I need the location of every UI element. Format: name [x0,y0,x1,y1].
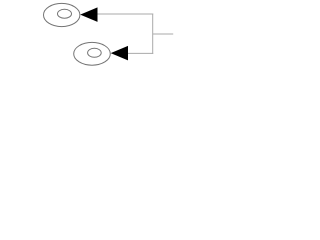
wire output stub (node OUT) [153,33,174,35]
indicator lamp L2 inner ellipse [88,48,102,57]
wire vertical bus [152,14,154,54]
arrowhead A1 (filled triangle pointing left into lamp L1) [80,7,97,22]
indicator lamp L1 (top receiver symbol, outer ellipse) [44,3,80,26]
background [0,0,225,70]
wire from A1 base to top-right corner [98,13,154,15]
wire from A2 base to bottom-right corner [128,52,153,54]
indicator lamp L1 inner ellipse [58,9,72,18]
arrowhead A2 (filled triangle pointing left into lamp L2) [111,46,128,61]
indicator lamp L2 (bottom receiver symbol, outer ellipse) [74,42,111,65]
